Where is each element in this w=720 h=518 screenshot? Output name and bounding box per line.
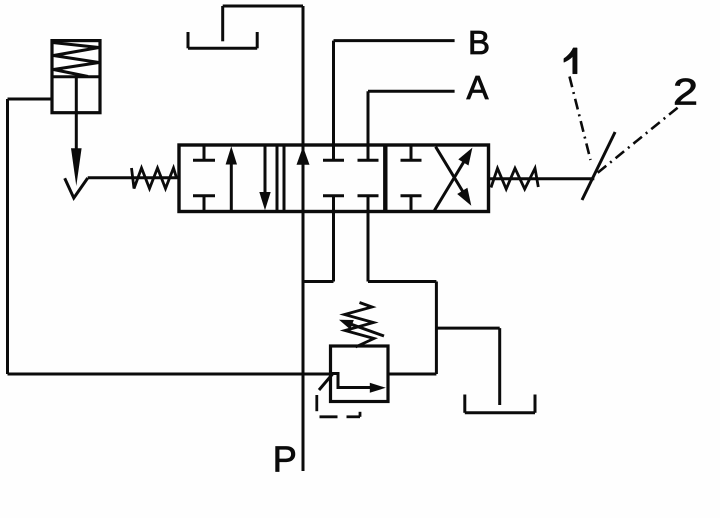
- svg-text:2: 2: [673, 71, 698, 112]
- svg-text:P: P: [273, 438, 297, 479]
- svg-text:B: B: [468, 24, 490, 61]
- svg-text:A: A: [467, 69, 489, 106]
